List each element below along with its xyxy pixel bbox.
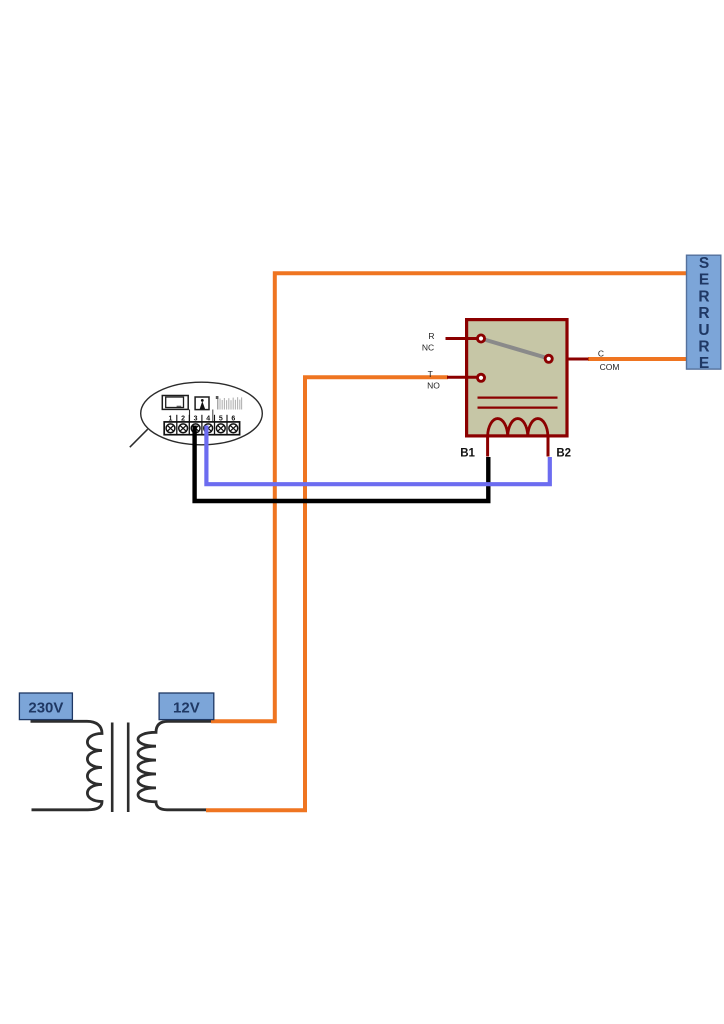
wire orange 12V bottom to relay NO [206,377,448,810]
terminal numbers 1-6 [169,415,236,422]
number separator ticks [177,415,227,422]
leader line icon to strip (left) [189,410,191,422]
intercom unit U1 (ellipse body) [141,382,263,445]
svg-text:T: T [428,369,433,379]
svg-text:5: 5 [219,415,223,422]
label 12V [159,693,214,720]
switch arm [483,339,548,358]
relay terminal NO [476,373,486,383]
wire orange relay COM to SERRURE [588,357,687,361]
SERRURE lock box [687,255,721,369]
svg-text:1: 1 [169,415,173,422]
svg-text:6: 6 [231,415,235,422]
svg-text:B1: B1 [460,447,475,459]
relay lead B1 [486,435,489,457]
leader line icon to strip (right) [212,410,214,422]
svg-text:NO: NO [427,380,440,390]
svg-text:230V: 230V [28,700,63,717]
svg-text:C: C [598,349,604,359]
svg-text:B2: B2 [556,447,571,459]
person icon [195,397,209,410]
relay lead T/NO stub [447,376,477,379]
svg-text:4: 4 [206,415,210,422]
svg-text:U: U [698,322,709,339]
wire black terminal3 to B1 [195,426,489,502]
svg-text:R: R [698,288,709,305]
svg-text:E: E [699,272,709,289]
pointer line to intercom [130,429,148,447]
terminal strip TB1 [164,422,239,435]
label 230V [19,693,72,720]
relay terminal COM [544,354,554,364]
svg-text:R: R [698,305,709,322]
relay coil [488,419,548,436]
relay lead COM [567,358,589,361]
svg-text:3: 3 [194,415,198,422]
screw terminals 1-6 [166,424,238,433]
transformer T1 primary winding [31,721,103,810]
svg-text:R: R [428,331,434,341]
monitor icon [162,396,188,410]
wire blue terminal4 to B2 [206,426,549,485]
relay K1 body [467,320,567,436]
svg-text:2: 2 [181,415,185,422]
svg-text:12V: 12V [173,700,200,717]
svg-text:E: E [699,355,709,372]
svg-text:S: S [699,255,709,272]
coil separator lines [478,397,558,399]
wire orange 12V top to SERRURE [211,273,687,721]
svg-text:COM: COM [600,362,620,372]
relay terminal NC [476,334,486,344]
relay lead R/NC [446,337,478,340]
svg-text:NC: NC [422,342,434,352]
speaker grille icon [216,396,242,410]
svg-text:R: R [698,339,709,356]
transformer T1 secondary winding [138,721,211,810]
relay lead B2 [547,435,550,457]
transformer core [111,723,114,813]
